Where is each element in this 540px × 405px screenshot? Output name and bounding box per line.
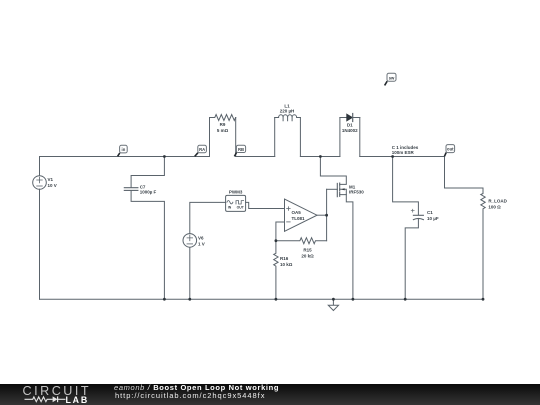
- junction M1 source ground rail: [352, 298, 355, 301]
- wire out to R_LOAD: [445, 157, 484, 189]
- wire rail sw segment: [300, 156, 340, 158]
- node flag in: [118, 145, 128, 156]
- junction C1 ground rail: [404, 298, 407, 301]
- svg-text:IRF530: IRF530: [349, 190, 364, 195]
- svg-text:R16: R16: [280, 256, 289, 261]
- svg-text:220 µH: 220 µH: [280, 108, 295, 113]
- junction op-amp output node: [325, 214, 328, 217]
- CircuitLab logo: [23, 384, 92, 398]
- op-amp OA5: [285, 199, 318, 231]
- junction R16 ground rail: [275, 298, 278, 301]
- diode D1: [340, 114, 360, 122]
- resistor R15: [276, 238, 327, 244]
- wire gate feedback riser: [326, 189, 328, 240]
- wire V1 top stub: [39, 157, 41, 176]
- svg-text:5 mΩ: 5 mΩ: [217, 128, 229, 133]
- wire C7 bottom: [131, 191, 164, 299]
- junction C1 on out rail: [391, 155, 394, 158]
- wire out rail: [360, 156, 445, 158]
- node flag RA: [195, 145, 207, 156]
- wire L1 right leg: [299, 118, 301, 157]
- svg-text:D1: D1: [347, 123, 353, 128]
- svg-text:V1: V1: [48, 177, 54, 182]
- junction R_LOAD ground rail: [482, 298, 485, 301]
- svg-text:R15: R15: [303, 248, 312, 253]
- capacitor C7: [124, 188, 138, 191]
- source PWM3: [226, 195, 246, 211]
- svg-text:OUT: OUT: [237, 205, 245, 209]
- wire PWM3 out to op-amp: [246, 202, 285, 208]
- svg-text:20 kΩ: 20 kΩ: [301, 254, 314, 259]
- wire rail RB segment: [236, 156, 275, 158]
- wire R_LOAD bottom leg: [482, 210, 484, 299]
- svg-text:100m ESR: 100m ESR: [392, 150, 415, 155]
- voltage source V1: [33, 176, 47, 190]
- wire R9 left leg: [209, 118, 211, 157]
- resistor R_LOAD: [481, 188, 485, 210]
- svg-text:out: out: [447, 147, 454, 152]
- svg-text:1N4002: 1N4002: [342, 128, 358, 133]
- inductor L1: [275, 115, 301, 121]
- junction C7 ground rail: [163, 298, 166, 301]
- wire C1 bottom: [405, 219, 418, 299]
- svg-text:10 µF: 10 µF: [427, 216, 439, 221]
- footer bar: [0, 384, 540, 405]
- svg-text:C 1 includes: C 1 includes: [392, 145, 419, 150]
- wire R9 right leg: [235, 118, 237, 157]
- wire V6 bottom stub: [189, 247, 191, 299]
- svg-text:10 V: 10 V: [48, 183, 57, 188]
- junction V6 ground rail: [188, 298, 191, 301]
- wire V6 to PWM3: [190, 202, 226, 233]
- voltage source V6: [183, 234, 197, 248]
- resistor R16: [274, 241, 278, 300]
- wire V1 bottom stub: [39, 189, 41, 299]
- svg-text:R_LOAD: R_LOAD: [488, 198, 507, 203]
- svg-text:OA5: OA5: [292, 210, 302, 215]
- svg-text:R9: R9: [220, 122, 226, 127]
- svg-text:10 kΩ: 10 kΩ: [280, 262, 293, 267]
- svg-text:V6: V6: [198, 236, 204, 241]
- svg-text:RB: RB: [238, 147, 244, 152]
- wire op-amp minus input: [276, 222, 285, 241]
- svg-text:TL081: TL081: [292, 216, 306, 221]
- node flag out: [444, 145, 454, 157]
- junction ground symbol on rail: [332, 298, 335, 301]
- svg-text:in: in: [122, 147, 126, 152]
- capacitor C1: [411, 209, 423, 219]
- svg-text:RA: RA: [199, 147, 205, 152]
- wire L1 left leg: [274, 118, 276, 157]
- svg-text:C1: C1: [427, 210, 433, 215]
- transistor M1: [320, 157, 353, 300]
- svg-text:IN: IN: [228, 205, 232, 209]
- node flag sw: [385, 73, 396, 85]
- svg-text:PWM3: PWM3: [229, 190, 243, 195]
- junction C7 top rail: [163, 155, 166, 158]
- ground: [328, 299, 338, 310]
- wire top rail in-node: [40, 156, 210, 158]
- wire op-amp output: [317, 214, 327, 216]
- junction R15 R16 inverting input node: [275, 239, 278, 242]
- wire C7 branch: [131, 157, 164, 188]
- wire D1 left leg: [339, 118, 341, 157]
- wire C1 branch top: [393, 157, 419, 215]
- svg-text:1000µ F: 1000µ F: [140, 190, 157, 195]
- junction M1 drain on rail: [319, 155, 322, 158]
- svg-text:100 Ω: 100 Ω: [488, 204, 501, 209]
- wire ground rail: [40, 298, 484, 300]
- svg-text:1 V: 1 V: [198, 242, 205, 247]
- wire D1 right leg: [359, 118, 361, 157]
- node flag RB: [234, 145, 245, 156]
- svg-text:sw: sw: [389, 75, 395, 80]
- resistor R9: [210, 115, 236, 121]
